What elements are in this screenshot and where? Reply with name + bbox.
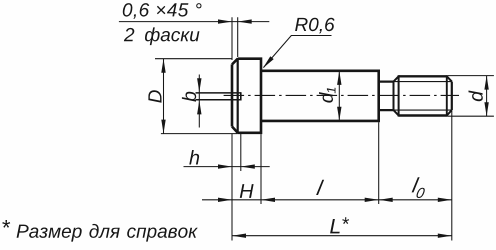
centerline: [224, 94, 459, 96]
label R0,6: [295, 18, 335, 34]
chamfer dimension line 0,6x45: [119, 21, 269, 23]
d dimension line: [486, 76, 488, 117]
head outline: [232, 57, 261, 134]
label D: [148, 90, 161, 103]
shoulder cylinder outline: [261, 70, 379, 123]
chamfer dimension extension lines: [232, 17, 238, 60]
arrow d top: [484, 76, 488, 90]
arrow b top: [197, 78, 201, 92]
left face extension line down to L*: [231, 134, 233, 241]
slot depth extension line: [240, 134, 242, 171]
arrow H right / l left: [261, 198, 275, 202]
label l: [316, 180, 324, 195]
arrow L* right: [438, 234, 452, 238]
thread end face: [451, 82, 453, 111]
thread minor diameter lines: [394, 82, 452, 111]
arrow D top: [161, 59, 165, 73]
d1 dimension line: [338, 71, 340, 121]
slot end line: [240, 92, 242, 100]
head right face extension line: [260, 134, 262, 204]
label h: [189, 150, 199, 165]
D dimension extension lines: [155, 59, 238, 134]
arrow l0 right: [438, 198, 452, 202]
neck (undercut groove) outline: [379, 82, 394, 111]
label 0,6x45: [123, 3, 202, 19]
arrow H left: [218, 198, 232, 202]
arrow h right: [241, 164, 255, 168]
thread chamfer edge line: [446, 75, 448, 116]
bottom chained dimension line H l l0: [202, 199, 452, 201]
arrow h left: [218, 164, 232, 168]
shoulder end extension line: [378, 122, 380, 204]
arrow L* left: [232, 234, 246, 238]
arrow D bottom: [161, 120, 165, 134]
arrow l0 left: [379, 198, 393, 202]
neck end boundary: [393, 82, 395, 111]
arrow d bottom: [484, 102, 488, 116]
thread end chamfers: [447, 76, 452, 115]
arrow l right: [365, 198, 379, 202]
note: dimension for reference: [2, 220, 198, 242]
screw end extension line: [451, 111, 453, 241]
arrow d1 top: [337, 71, 341, 85]
label 2 faski: [124, 27, 199, 45]
D dimension line: [163, 59, 165, 134]
b dimension line: [198, 75, 200, 128]
slot (shlits) side view lines: [196, 93, 241, 100]
L* dimension line: [232, 235, 452, 237]
arrow b bottom: [197, 100, 201, 114]
head chamfer edge line: [237, 58, 239, 134]
h dimension line: [184, 166, 270, 168]
R0,6 leader line: [264, 36, 332, 68]
arrow R0,6 leader: [263, 56, 274, 68]
arrow chamfer dim right: [238, 19, 252, 23]
thread major diameter outline: [399, 76, 447, 115]
d dimension extension lines: [448, 76, 494, 117]
label d: [469, 91, 483, 102]
thread start line: [398, 75, 400, 116]
label d1: [319, 88, 336, 103]
label L*: [330, 217, 349, 233]
arrow d1 bottom: [337, 107, 341, 121]
thread run-in diagonals: [394, 76, 399, 115]
label H: [240, 184, 254, 198]
arrow chamfer dim left: [218, 19, 232, 23]
label l0: [410, 177, 427, 198]
label b: [182, 92, 196, 102]
